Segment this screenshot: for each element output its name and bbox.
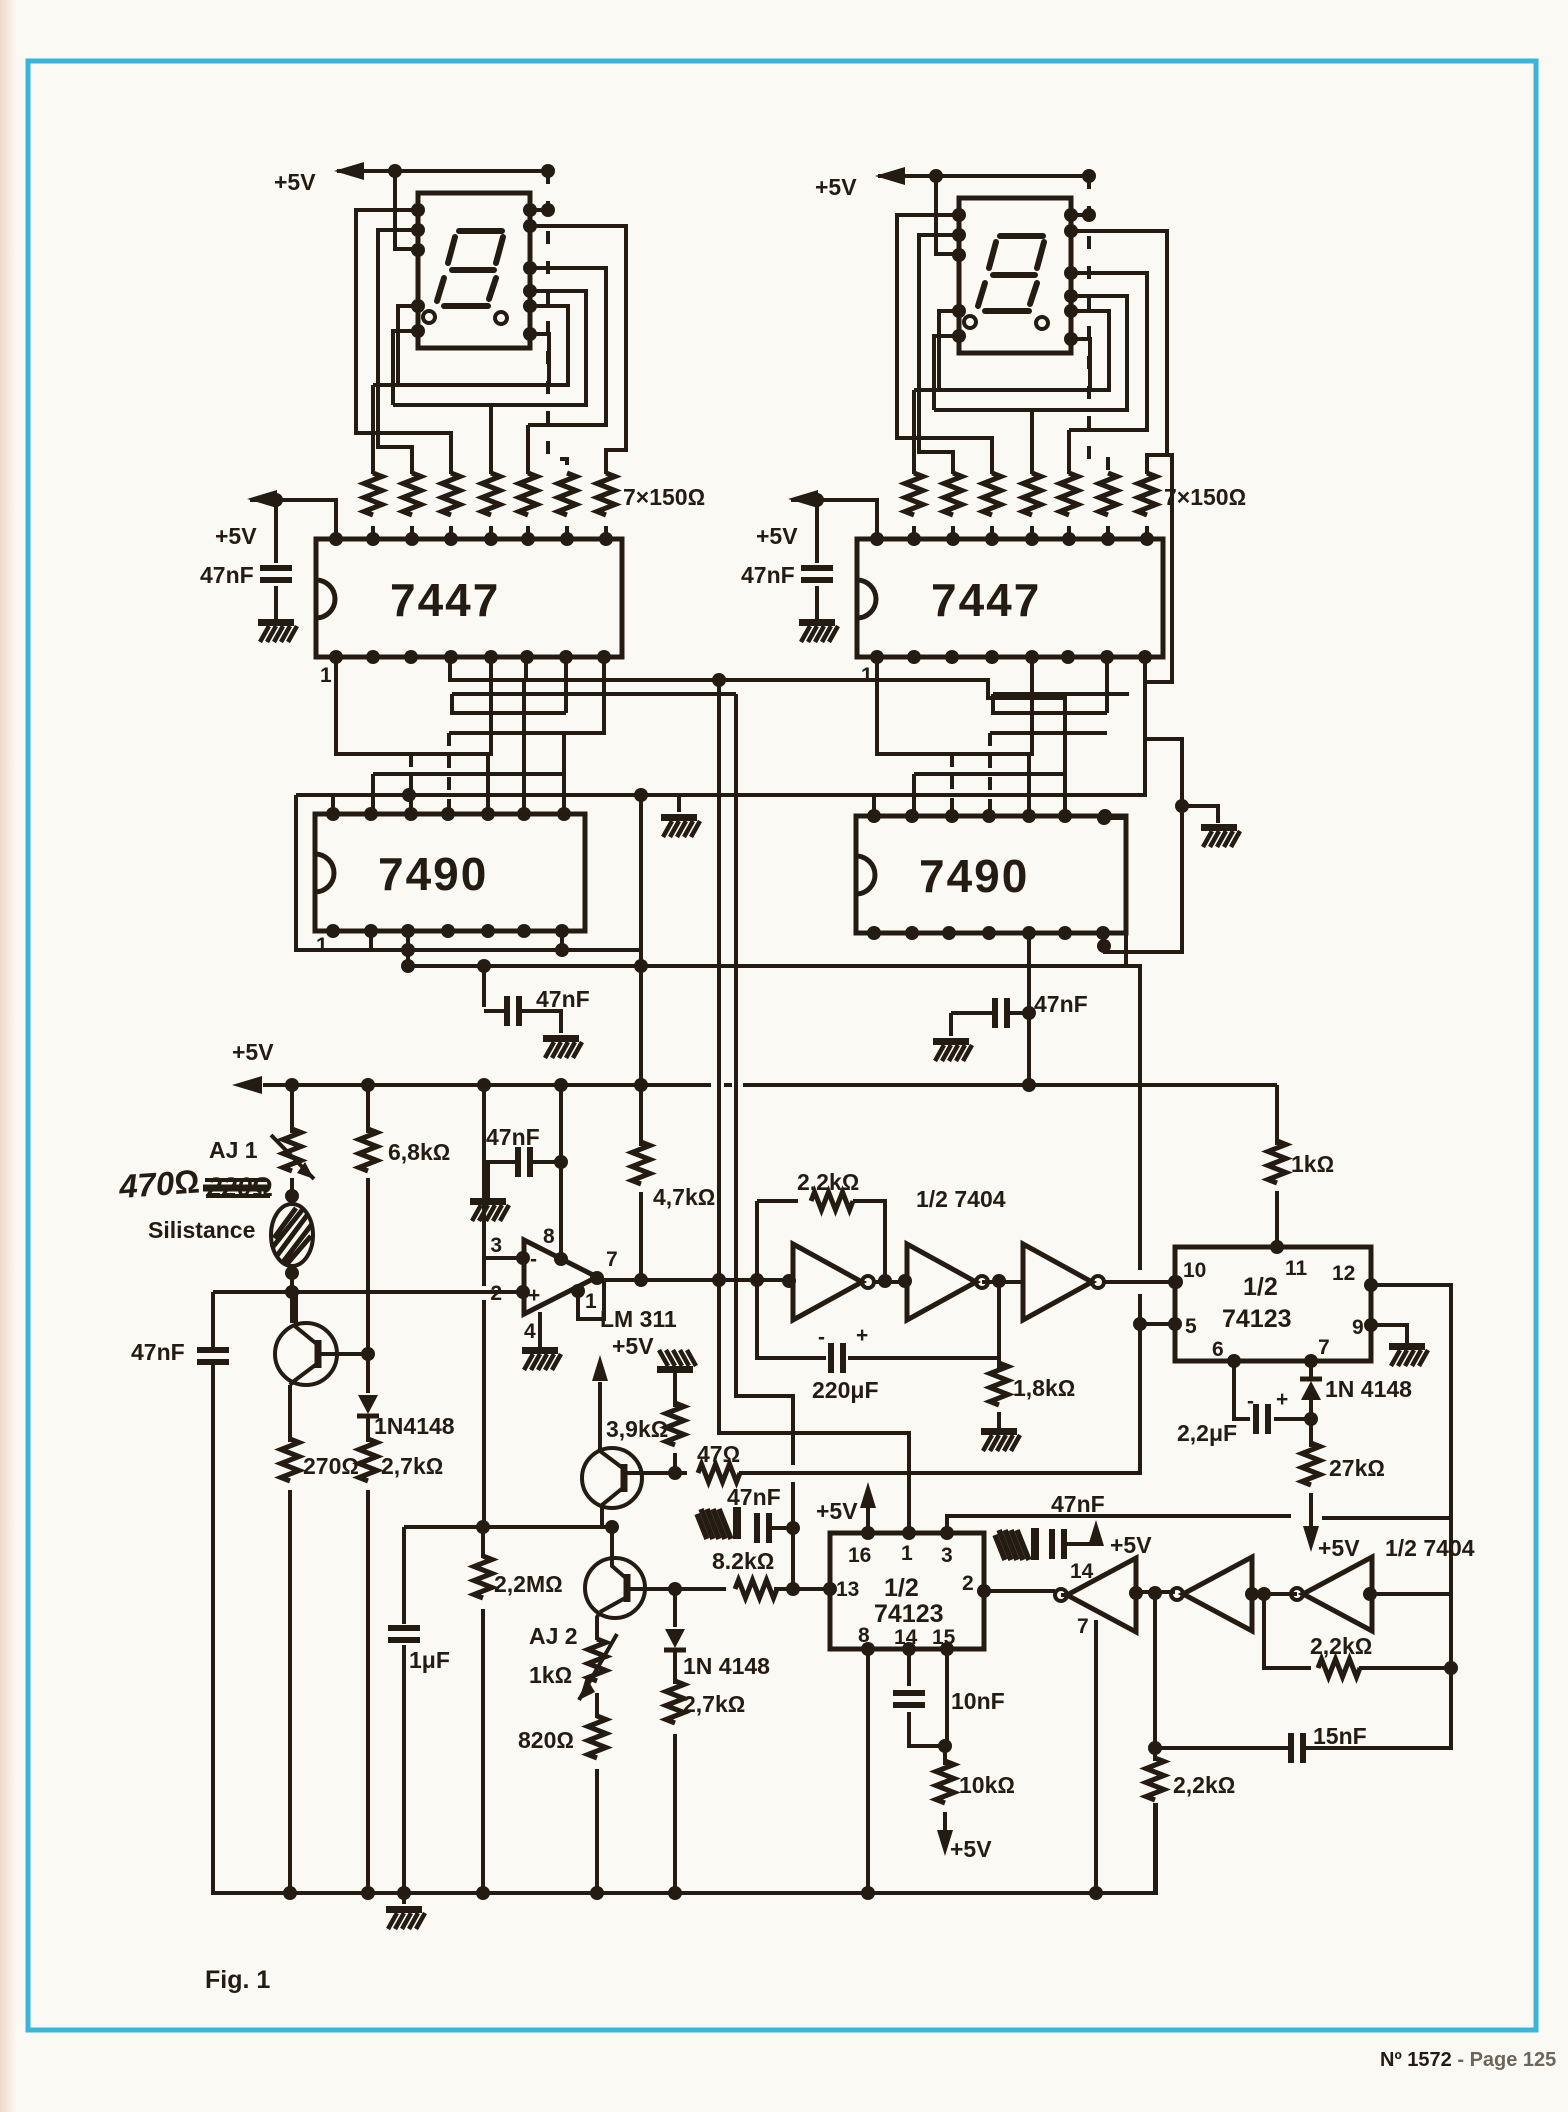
svg-text:10: 10 [1183, 1259, 1206, 1282]
svg-text:10nF: 10nF [951, 1688, 1005, 1714]
svg-text:2: 2 [490, 1282, 502, 1305]
svg-text:8: 8 [858, 1624, 870, 1647]
svg-text:220μF: 220μF [812, 1377, 879, 1403]
svg-text:1kΩ: 1kΩ [1291, 1151, 1334, 1177]
svg-text:+5V: +5V [815, 174, 857, 200]
svg-text:+: + [856, 1324, 868, 1347]
svg-text:1N 4148: 1N 4148 [1325, 1376, 1412, 1402]
svg-text:10kΩ: 10kΩ [959, 1772, 1015, 1798]
svg-text:+5V: +5V [816, 1498, 858, 1524]
svg-text:Silistance: Silistance [148, 1217, 255, 1243]
svg-text:7: 7 [606, 1248, 618, 1271]
svg-text:74123: 74123 [1222, 1305, 1292, 1333]
svg-text:1N 4148: 1N 4148 [683, 1653, 770, 1679]
svg-text:15: 15 [932, 1626, 956, 1649]
svg-text:4: 4 [524, 1320, 536, 1343]
svg-text:13: 13 [836, 1578, 859, 1601]
svg-text:2,2MΩ: 2,2MΩ [494, 1571, 563, 1597]
svg-text:AJ 2: AJ 2 [529, 1623, 578, 1649]
svg-text:LM 311: LM 311 [600, 1306, 677, 1332]
svg-text:27kΩ: 27kΩ [1329, 1455, 1385, 1481]
svg-text:AJ 1: AJ 1 [209, 1137, 258, 1163]
svg-text:11: 11 [1285, 1257, 1308, 1280]
svg-text:9: 9 [1352, 1316, 1364, 1339]
svg-text:14: 14 [894, 1626, 918, 1649]
svg-text:3: 3 [941, 1544, 953, 1567]
svg-text:74123: 74123 [874, 1600, 944, 1628]
svg-text:8.2kΩ: 8.2kΩ [712, 1548, 774, 1574]
svg-text:6,8kΩ: 6,8kΩ [388, 1139, 450, 1165]
svg-text:2,2kΩ: 2,2kΩ [797, 1169, 859, 1195]
svg-text:1N4148: 1N4148 [374, 1413, 455, 1439]
svg-text:47nF: 47nF [486, 1124, 540, 1150]
svg-text:1/2 7404: 1/2 7404 [916, 1186, 1006, 1212]
svg-text:2,2μF: 2,2μF [1177, 1420, 1237, 1446]
svg-text:Nº 1572 - Page 125: Nº 1572 - Page 125 [1380, 2049, 1556, 2071]
svg-text:+5V: +5V [1318, 1535, 1360, 1561]
svg-text:47nF: 47nF [727, 1484, 781, 1510]
svg-text:3,9kΩ: 3,9kΩ [606, 1416, 668, 1442]
svg-text:Fig. 1: Fig. 1 [205, 1966, 270, 1994]
svg-text:820Ω: 820Ω [518, 1727, 574, 1753]
svg-text:2,2kΩ: 2,2kΩ [1310, 1633, 1372, 1659]
svg-text:47nF: 47nF [1051, 1491, 1105, 1517]
svg-text:2,7kΩ: 2,7kΩ [683, 1691, 745, 1717]
svg-text:-: - [818, 1326, 825, 1349]
svg-text:470Ω: 470Ω [117, 1162, 201, 1205]
svg-text:47nF: 47nF [131, 1339, 185, 1365]
svg-text:7: 7 [1077, 1615, 1089, 1638]
svg-text:5: 5 [1185, 1315, 1197, 1338]
svg-text:47nF: 47nF [536, 986, 590, 1012]
svg-text:1kΩ: 1kΩ [529, 1662, 572, 1688]
svg-text:+5V: +5V [612, 1333, 654, 1359]
svg-text:-: - [1247, 1390, 1254, 1413]
svg-text:2,7kΩ: 2,7kΩ [381, 1453, 443, 1479]
svg-text:1: 1 [901, 1542, 913, 1565]
svg-text:+5V: +5V [950, 1836, 992, 1862]
svg-text:14: 14 [1070, 1560, 1094, 1583]
svg-text:+5V: +5V [274, 169, 316, 195]
svg-text:+: + [1276, 1388, 1288, 1411]
svg-text:2,2kΩ: 2,2kΩ [1173, 1772, 1235, 1798]
svg-text:-: - [530, 1248, 537, 1271]
svg-text:1/2: 1/2 [884, 1574, 919, 1602]
svg-text:47nF: 47nF [1034, 991, 1088, 1017]
svg-text:+5V: +5V [232, 1039, 274, 1065]
svg-text:270Ω: 270Ω [303, 1453, 359, 1479]
svg-text:7: 7 [1318, 1336, 1330, 1359]
svg-text:1,8kΩ: 1,8kΩ [1013, 1375, 1075, 1401]
svg-text:8: 8 [543, 1225, 555, 1248]
svg-text:1μF: 1μF [409, 1647, 450, 1673]
svg-text:+: + [528, 1284, 540, 1307]
svg-text:2: 2 [962, 1572, 974, 1595]
svg-text:1: 1 [316, 934, 328, 957]
svg-text:1/2: 1/2 [1243, 1273, 1278, 1301]
svg-text:16: 16 [848, 1544, 871, 1567]
svg-text:1: 1 [585, 1290, 597, 1313]
svg-text:+5V: +5V [1110, 1532, 1152, 1558]
svg-text:6: 6 [1212, 1338, 1224, 1361]
svg-text:3: 3 [490, 1234, 502, 1257]
svg-text:47Ω: 47Ω [697, 1441, 740, 1467]
svg-text:15nF: 15nF [1313, 1723, 1367, 1749]
svg-text:12: 12 [1332, 1262, 1355, 1285]
svg-text:4,7kΩ: 4,7kΩ [653, 1184, 715, 1210]
svg-text:1/2 7404: 1/2 7404 [1385, 1535, 1475, 1561]
